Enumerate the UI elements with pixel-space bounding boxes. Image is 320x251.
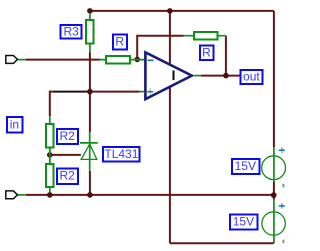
resistor R body (input) xyxy=(106,56,130,64)
wire lead input connector bottom xyxy=(18,194,26,196)
wire ground row xyxy=(26,194,274,196)
wire R3 bottom down to TL431 xyxy=(89,52,91,132)
label box R2 upper xyxy=(57,129,78,144)
svg-text:R: R xyxy=(115,34,124,48)
op-amp minus mark xyxy=(147,59,153,61)
svg-text:out: out xyxy=(243,70,260,84)
wire V2 bottom corner xyxy=(273,242,275,243)
op-amp U1 triangle xyxy=(145,52,191,99)
svg-text:in: in xyxy=(10,117,19,131)
wire corner down to R2 top xyxy=(50,92,54,117)
label box 15V lower xyxy=(230,214,258,229)
svg-text:R2: R2 xyxy=(60,129,76,143)
wire feedback right drop to output node xyxy=(225,36,227,76)
source V2 minus mark xyxy=(282,240,283,243)
junction R2 bottom at ground row xyxy=(47,192,53,198)
svg-text:R: R xyxy=(202,45,211,59)
source V2 lead xyxy=(273,200,275,243)
label box R3 xyxy=(61,25,82,38)
label box 15V upper xyxy=(232,159,260,174)
source V2 circle xyxy=(262,212,285,235)
wire noninverting node to op-amp xyxy=(92,91,140,93)
resistor R2 lower leads xyxy=(49,148,51,192)
input connector bottom xyxy=(6,191,18,199)
source V1 lead xyxy=(273,147,275,181)
wire black branch to R2 divider xyxy=(53,91,88,93)
resistor R feedback body xyxy=(194,32,218,40)
TL431 D1 cathode lead through symbol xyxy=(89,132,91,171)
source V2 plus mark xyxy=(281,203,283,209)
resistor R3 leads xyxy=(89,13,91,53)
svg-text:TL431: TL431 xyxy=(104,147,138,161)
junction inverting input node xyxy=(134,57,140,63)
TL431 D1 triangle xyxy=(81,144,97,160)
resistor R feedback leads xyxy=(184,35,226,37)
op-amp plus mark xyxy=(149,88,151,94)
wire lead input connector top xyxy=(18,59,26,61)
wire V1 bottom to mid node xyxy=(273,181,275,199)
wire top rail V+ xyxy=(90,10,274,12)
source V1 circle xyxy=(262,156,286,180)
resistor R leads row xyxy=(100,59,145,61)
svg-text:15V: 15V xyxy=(235,159,256,173)
wire right rail down to V1 xyxy=(273,11,275,147)
resistor R3 body xyxy=(86,20,94,43)
wire input row to R xyxy=(26,59,100,61)
svg-text:R2: R2 xyxy=(60,169,76,183)
svg-text:15V: 15V xyxy=(233,214,254,228)
junction TL431 at ground row xyxy=(87,192,93,198)
op-amp noninverting lead xyxy=(139,91,144,93)
wire feedback from inverting node up and right xyxy=(137,36,183,60)
resistor R2 upper leads xyxy=(49,116,51,163)
junction op-amp supply at top rail xyxy=(167,8,173,14)
wire TL431 anode down to ground row xyxy=(89,171,91,193)
label box in xyxy=(7,117,23,132)
source V1 minus mark xyxy=(282,184,283,187)
source V1 plus mark xyxy=(281,147,283,153)
wire TL431 reference xyxy=(50,154,81,156)
junction R2 divider mid node xyxy=(47,152,53,158)
resistor R2 lower body xyxy=(46,164,54,187)
label box out xyxy=(240,70,262,84)
wire bottom rail V- xyxy=(170,242,274,244)
label box TL431 xyxy=(103,147,139,162)
label box R2 lower xyxy=(57,169,78,184)
op-amp output lead xyxy=(194,75,201,77)
label box R feedback xyxy=(200,46,214,60)
input connector top xyxy=(6,56,18,64)
op-amp ideal marker I xyxy=(173,71,175,81)
wire op-amp supply column xyxy=(169,11,171,243)
resistor R2 upper body xyxy=(46,124,54,147)
junction noninverting node xyxy=(87,89,93,95)
TL431 D1 cathode bar xyxy=(80,142,98,144)
junction supply mid node xyxy=(271,192,277,198)
wire output to out tag xyxy=(201,75,240,77)
label box R input xyxy=(113,34,127,49)
junction top of R3 xyxy=(87,8,93,14)
junction output node xyxy=(223,73,229,79)
svg-text:R3: R3 xyxy=(64,25,80,39)
